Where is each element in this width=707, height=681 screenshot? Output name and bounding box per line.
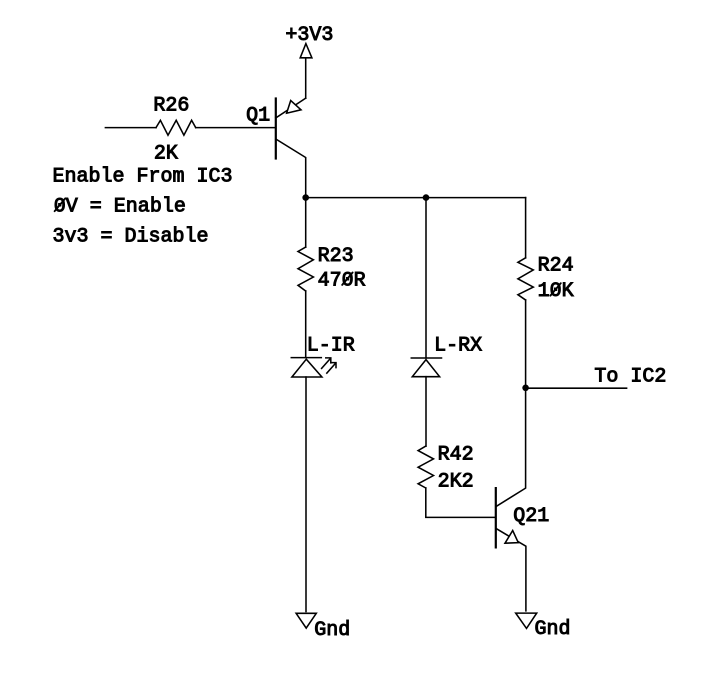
svg-text:R26: R26	[153, 94, 189, 117]
svg-text:10K: 10K	[538, 280, 574, 303]
svg-text:R42: R42	[438, 444, 474, 467]
svg-text:470R: 470R	[318, 269, 366, 292]
svg-text:3v3 = Disable: 3v3 = Disable	[53, 226, 209, 249]
svg-text:2K: 2K	[154, 143, 178, 166]
svg-text:2K2: 2K2	[438, 471, 474, 494]
svg-text:L-RX: L-RX	[434, 335, 482, 358]
svg-text:L-IR: L-IR	[307, 335, 355, 358]
svg-text:To IC2: To IC2	[594, 365, 666, 388]
svg-text:Q1: Q1	[246, 104, 270, 127]
svg-text:Gnd: Gnd	[535, 618, 571, 641]
svg-text:R24: R24	[538, 255, 574, 278]
svg-text:Q21: Q21	[513, 505, 549, 528]
svg-text:Gnd: Gnd	[314, 619, 350, 642]
svg-text:R23: R23	[318, 245, 354, 268]
svg-text:0V = Enable: 0V = Enable	[54, 196, 186, 219]
svg-text:Enable From IC3: Enable From IC3	[53, 166, 233, 189]
svg-text:+3V3: +3V3	[285, 24, 333, 47]
